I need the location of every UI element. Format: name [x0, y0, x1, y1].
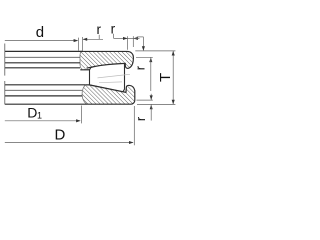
- left silhouette line bottom4 (bottom face): [5, 103, 88, 105]
- svg-text:r: r: [97, 22, 102, 37]
- cage line upper (faint): [98, 74, 131, 78]
- dimension d line: [5, 40, 78, 42]
- top face extension line (right): [135, 50, 175, 52]
- upper washer (sectioned, hatched): [80, 51, 133, 69]
- upper washer bore-side land line: [80, 69, 91, 71]
- T dimension line: [172, 51, 174, 105]
- left silhouette line top1: [5, 50, 83, 52]
- top-right r dim: up arrow with long tail: [149, 58, 152, 63]
- bottom face extension line (right, shared with T): [137, 103, 175, 105]
- r1 leader/dim (inner corner radius): [83, 38, 103, 40]
- svg-text:D: D: [27, 104, 37, 120]
- left silhouette line bottom3: [5, 95, 82, 97]
- svg-text:1: 1: [37, 111, 42, 121]
- svg-text:T: T: [157, 73, 174, 82]
- cage line lower (faint): [99, 81, 122, 84]
- roller (white trapezoid): [90, 64, 125, 92]
- left silhouette line bottom1: [5, 84, 86, 86]
- D1 extension line: [81, 106, 83, 124]
- svg-text:r: r: [134, 66, 148, 70]
- d extension line: [77, 38, 79, 51]
- axis/datum line bottom segment: [4, 81, 6, 104]
- axis/datum line top segment: [4, 44, 6, 76]
- D1 dimension line: [5, 120, 80, 122]
- D dimension line: [5, 142, 133, 144]
- bottom-right r dim: up arrow with tail: [150, 105, 153, 110]
- left silhouette line top3: [5, 62, 80, 64]
- svg-text:r: r: [134, 117, 148, 121]
- corner arc-start extension (right): [136, 56, 153, 58]
- left silhouette line top4: [5, 67, 80, 69]
- left silhouette line top2 (thin): [5, 56, 80, 58]
- svg-text:d: d: [36, 24, 44, 41]
- svg-text:D: D: [55, 127, 66, 144]
- bottom-right r dim: ext line at arc start: [137, 99, 153, 101]
- svg-text:r: r: [111, 21, 116, 36]
- top-right r dim: down arrow: [137, 36, 144, 38]
- left silhouette line bottom2 (thin): [5, 89, 82, 91]
- bottom-right r dim: down arrow: [150, 94, 152, 100]
- lower washer (sectioned, hatched, with outer rim): [82, 85, 135, 104]
- D extension line: [133, 106, 135, 145]
- r2 leader/dim (outer top corner radius): [113, 34, 115, 39]
